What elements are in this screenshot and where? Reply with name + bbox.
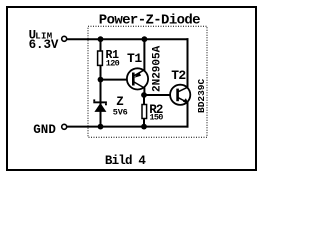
- svg-text:T2: T2: [171, 68, 186, 83]
- svg-text:Bild 4: Bild 4: [105, 154, 147, 168]
- svg-text:T1: T1: [127, 51, 142, 66]
- svg-text:120: 120: [106, 58, 120, 68]
- svg-text:2N2905A: 2N2905A: [151, 45, 163, 92]
- svg-text:GND: GND: [33, 123, 56, 137]
- svg-text:Power-Z-Diode: Power-Z-Diode: [99, 13, 200, 29]
- svg-text:BD239C: BD239C: [196, 78, 207, 113]
- svg-text:150: 150: [150, 113, 164, 123]
- svg-text:5V6: 5V6: [113, 107, 128, 117]
- svg-text:6.3V: 6.3V: [29, 38, 59, 52]
